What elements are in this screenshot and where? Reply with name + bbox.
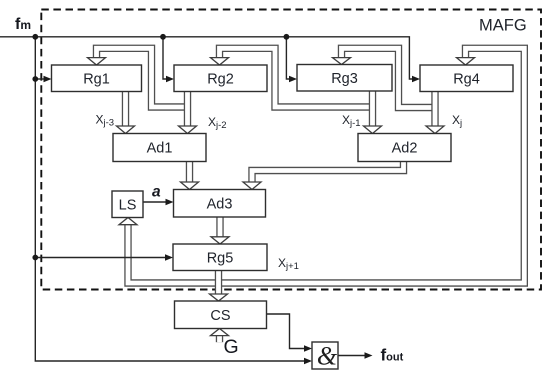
junction fm to Rg3 xyxy=(284,34,290,40)
bus: Rg3 output tap to Rg2 top loop xyxy=(220,48,373,107)
junction fm to Rg1 xyxy=(32,76,38,82)
bus: Rg3 output Xj-1 to Ad2 xyxy=(369,91,376,126)
wire: fm branch into Rg5 xyxy=(35,257,165,259)
bus: Rg4 output Xj to Ad2 xyxy=(431,91,438,126)
register Rg5 xyxy=(173,244,267,271)
hollow arrow into Rg4 top xyxy=(457,58,475,65)
arrowhead into AND upper input xyxy=(304,345,312,351)
register Rg4 xyxy=(420,65,513,92)
svg-text:Rg1: Rg1 xyxy=(83,71,110,87)
bus: Rg5 output to CS xyxy=(215,271,222,295)
hollow arrow Xj-2 into Ad1 xyxy=(179,126,197,134)
svg-text:CS: CS xyxy=(210,308,230,324)
wire: CS to AND gate xyxy=(267,314,305,349)
arrowhead into Rg5 xyxy=(165,254,173,260)
hollow arrow Xj into Ad2 xyxy=(426,126,444,134)
junction fm drop xyxy=(32,34,38,40)
wire: fm top line with turn into Rg4 xyxy=(0,37,412,79)
bus: feedback from Xj+1 to LS and Rg4 top loop xyxy=(128,48,524,283)
wire: LS to Ad3 xyxy=(143,201,167,203)
hollow arrow Xj-3 into Ad1 xyxy=(117,126,135,134)
wire: fm branch into Rg3 xyxy=(286,37,290,79)
arrowhead into Rg3 xyxy=(289,76,297,82)
svg-text:&: & xyxy=(317,342,338,371)
arrowhead into Ad3 from LS xyxy=(166,199,174,205)
hollow arrow into Rg3 top xyxy=(333,58,351,65)
hollow arrow Ad3 out into Rg5 xyxy=(211,237,229,244)
left shifter LS xyxy=(112,191,143,218)
svg-text:MAFG: MAFG xyxy=(479,17,527,35)
svg-text:Rg4: Rg4 xyxy=(453,71,480,87)
bus: Ad3 output to Rg5 xyxy=(216,217,223,237)
hollow arrow Xj-1 into Ad2 xyxy=(364,126,382,134)
arrowhead into AND lower input xyxy=(304,358,312,364)
svg-text:LS: LS xyxy=(119,197,137,213)
converter CS xyxy=(175,301,267,329)
AND gate xyxy=(312,342,338,371)
hollow arrow Rg5 out into CS xyxy=(210,294,228,301)
hollow arrow into Rg1 top xyxy=(88,58,106,65)
junction fm to Rg5 xyxy=(32,255,38,261)
arrowhead into Rg4 xyxy=(412,76,420,82)
svg-text:Rg2: Rg2 xyxy=(207,71,234,87)
hollow arrow up into LS xyxy=(119,218,137,225)
hollow arrow into Rg2 top xyxy=(211,58,229,65)
svg-text:Rg5: Rg5 xyxy=(207,250,234,266)
svg-text:Ad1: Ad1 xyxy=(147,141,173,157)
bus: G input tail xyxy=(216,336,223,343)
bus: Rg1 output Xj-3 to Ad1 xyxy=(122,92,129,127)
hollow arrow G up into CS xyxy=(211,329,229,336)
adder Ad2 xyxy=(358,134,451,162)
wire: fm branch into Rg1 xyxy=(35,78,44,80)
bus: Rg4 output tap to Rg3 top loop xyxy=(342,48,436,107)
bus: Ad1 output to Ad3 xyxy=(186,162,193,183)
adder Ad3 xyxy=(174,190,266,218)
svg-text:fm: fm xyxy=(15,16,31,33)
hollow arrow Ad1 out into Ad3 xyxy=(181,182,199,190)
bus: Rg2 output Xj-2 to Ad1 xyxy=(184,92,191,127)
svg-text:G: G xyxy=(224,336,239,358)
arrowhead into Rg2 xyxy=(166,76,174,82)
svg-text:a: a xyxy=(152,184,161,201)
svg-text:Ad3: Ad3 xyxy=(207,196,233,212)
register Rg3 xyxy=(297,65,392,92)
dashed MAFG boundary xyxy=(41,10,541,290)
arrowhead fout xyxy=(365,352,373,358)
bus: Rg2 output tap to Rg1 top loop xyxy=(97,48,188,107)
hollow arrow Ad2 out into Ad3 xyxy=(243,182,261,190)
register Rg2 xyxy=(174,65,267,92)
arrowhead into Rg1 xyxy=(44,76,52,82)
svg-text:Rg3: Rg3 xyxy=(331,71,358,87)
adder Ad1 xyxy=(113,134,206,162)
wire: fm branch into Rg2 xyxy=(163,37,167,79)
register Rg1 xyxy=(52,65,142,92)
wire: AND gate output xyxy=(338,355,365,357)
wire: left fm drop and bottom run to AND gate xyxy=(35,37,304,361)
junction fm to Rg2 xyxy=(160,34,166,40)
svg-text:Ad2: Ad2 xyxy=(392,141,418,157)
bus: Ad2 output to Ad3 xyxy=(252,162,404,183)
